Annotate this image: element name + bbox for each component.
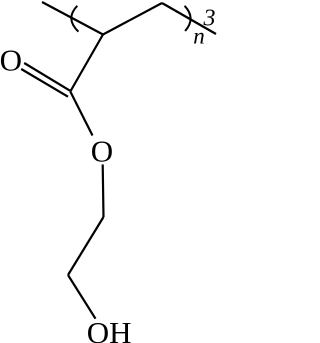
- svg-text:n: n: [193, 24, 205, 49]
- wire backbone CH2-CH left segment: [42, 2, 103, 35]
- right repeat parenthesis: [185, 6, 191, 31]
- double bond C=O lower line: [21, 69, 68, 97]
- wire backbone CH2 exit segment: [162, 3, 216, 34]
- bond carbonyl C to ester O: [70, 92, 92, 136]
- bond ester O to CH2 vertical: [102, 165, 105, 218]
- svg-text:OH: OH: [87, 315, 132, 343]
- wire backbone CH-CH2 right-up segment: [103, 3, 162, 35]
- bond CH2 to CH2 down-left: [68, 217, 104, 275]
- left repeat parenthesis: [71, 6, 78, 32]
- svg-text:O: O: [91, 133, 113, 168]
- bond CH2 to OH down-right: [68, 275, 96, 319]
- svg-text:O: O: [0, 42, 22, 77]
- double bond C=O upper line: [24, 63, 70, 91]
- bond CH to carbonyl C: [70, 35, 103, 92]
